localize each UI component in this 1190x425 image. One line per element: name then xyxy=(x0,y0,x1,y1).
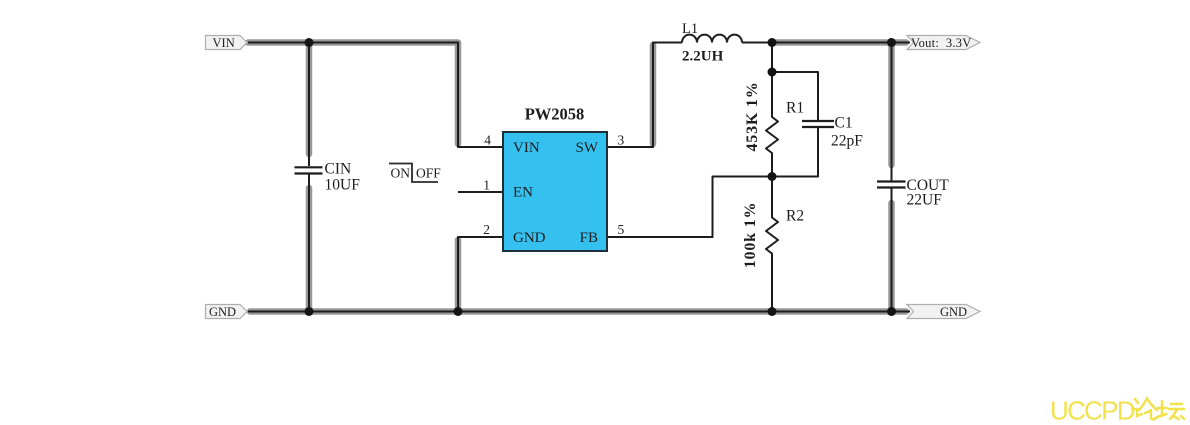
junction feedback tap xyxy=(768,172,777,181)
svg-text:Vout: 3.3V: Vout: 3.3V xyxy=(911,36,972,50)
glyph 坛 xyxy=(1157,401,1184,419)
svg-text:L1: L1 xyxy=(682,21,698,37)
svg-text:VIN: VIN xyxy=(213,36,235,50)
wire VIN rail to pin 4 xyxy=(248,43,503,148)
net flag VIN xyxy=(206,36,248,50)
wire output rail xyxy=(772,39,910,46)
svg-text:FB: FB xyxy=(580,230,598,246)
net flag Vout 3.3V xyxy=(907,36,980,50)
wire CIN bottom lead xyxy=(306,175,313,312)
svg-text:R2: R2 xyxy=(786,208,804,225)
wire CIN top lead xyxy=(306,43,313,167)
svg-text:SW: SW xyxy=(576,140,599,156)
svg-text:C1: C1 xyxy=(835,115,853,132)
svg-text:2.2UH: 2.2UH xyxy=(682,49,724,65)
svg-text:UCCPD: UCCPD xyxy=(1050,396,1135,425)
svg-text:R1: R1 xyxy=(786,100,804,117)
junction COUT top xyxy=(887,38,896,47)
svg-text:100k 1%: 100k 1% xyxy=(742,202,759,269)
svg-text:ON: ON xyxy=(391,166,411,181)
wire EN stub pin 1 xyxy=(458,191,503,193)
junction COUT bottom xyxy=(887,307,896,316)
junction R2 bottom xyxy=(768,307,777,316)
svg-text:453K 1%: 453K 1% xyxy=(744,81,761,151)
svg-text:CIN: CIN xyxy=(325,161,352,178)
svg-text:GND: GND xyxy=(209,305,236,319)
wire ground rail xyxy=(248,308,910,315)
wire FB pin 5 to divider tap xyxy=(608,177,772,238)
svg-text:22pF: 22pF xyxy=(831,133,863,150)
svg-text:2: 2 xyxy=(483,222,490,237)
capacitor CIN 10UF xyxy=(295,161,361,194)
capacitor C1 22pF xyxy=(772,72,863,177)
glyph 论 xyxy=(1132,398,1157,420)
svg-text:22UF: 22UF xyxy=(907,192,943,209)
svg-text:3: 3 xyxy=(618,133,625,148)
svg-text:4: 4 xyxy=(484,133,491,148)
svg-text:VIN: VIN xyxy=(513,140,540,156)
wire pin 2 GND drop xyxy=(458,237,503,312)
capacitor COUT 22UF xyxy=(877,177,949,209)
junction CIN top xyxy=(305,38,314,47)
IC U1 PW2058 xyxy=(503,105,607,252)
watermark UCCPD论坛 xyxy=(1050,396,1184,425)
svg-text:GND: GND xyxy=(513,230,546,246)
svg-text:5: 5 xyxy=(618,222,625,237)
svg-text:10UF: 10UF xyxy=(325,177,361,194)
wire COUT bottom lead xyxy=(888,189,895,312)
svg-text:OFF: OFF xyxy=(416,166,441,181)
junction output node at L1 xyxy=(768,38,777,47)
svg-text:1: 1 xyxy=(483,178,490,193)
svg-text:EN: EN xyxy=(513,185,533,201)
junction IC ground xyxy=(454,307,463,316)
wire COUT top lead xyxy=(888,43,895,181)
switch label ON/OFF xyxy=(389,164,441,183)
wire L1 to output node xyxy=(742,42,772,44)
svg-text:GND: GND xyxy=(940,305,967,319)
svg-text:PW2058: PW2058 xyxy=(525,105,585,124)
net flag GND left xyxy=(206,305,248,320)
resistor R1 453K 1% xyxy=(744,43,804,177)
net flag GND right xyxy=(907,305,980,320)
inductor L1 xyxy=(682,21,742,65)
wire pin 3 SW riser xyxy=(608,43,682,148)
junction R1/C1 top branch xyxy=(768,68,777,77)
junction CIN bottom xyxy=(305,307,314,316)
resistor R2 100k 1% xyxy=(742,177,804,312)
